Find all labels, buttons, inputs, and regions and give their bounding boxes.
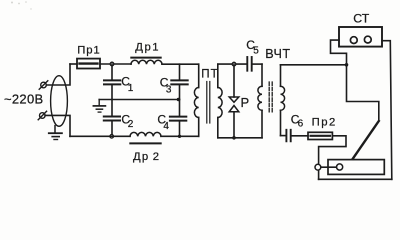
svg-text:ПТ: ПТ <box>201 68 218 80</box>
svg-text:3: 3 <box>166 85 172 96</box>
wire jog to ST left terminal <box>331 40 347 65</box>
electrode (welding electrode) <box>353 121 379 159</box>
svg-text:ВЧТ: ВЧТ <box>265 47 290 61</box>
wire VChT secondary top to ST junction <box>281 64 347 66</box>
fuse Pr1 <box>77 59 100 69</box>
node junction C2 / bottom rail <box>110 135 114 139</box>
transformer VChT core <box>269 82 272 113</box>
svg-text:Р: Р <box>241 95 250 110</box>
transformer PT core <box>207 82 210 124</box>
svg-text:2: 2 <box>128 119 134 130</box>
capacitor C4 <box>170 100 186 137</box>
inductor Dr1 <box>131 58 162 65</box>
wire tank bottom <box>218 137 262 139</box>
wire bottom return rail <box>319 178 392 180</box>
scan specks (decorative noise) <box>11 1 32 10</box>
wire VChT secondary bottom to C6 <box>281 135 286 137</box>
svg-text:4: 4 <box>163 121 169 132</box>
capacitor C1 <box>104 64 120 100</box>
wire bottom rail right <box>161 135 199 137</box>
wire bottom rail left <box>70 135 130 137</box>
svg-text:5: 5 <box>253 46 259 57</box>
workpiece box <box>328 160 384 175</box>
fuse Pr2 <box>308 132 332 139</box>
node terminal bottom pin (neutral) <box>38 111 46 119</box>
node junction C4 / bottom rail <box>178 135 181 138</box>
ground (at plug) <box>49 126 62 140</box>
wire middle rail <box>99 99 179 101</box>
wire ST right terminal to right rail <box>382 41 392 180</box>
node junction electrode branch <box>345 63 349 67</box>
transformer PT secondary <box>218 64 222 138</box>
node junction fuse/C1/Dr1 <box>110 62 114 66</box>
terminal left of ST <box>350 37 357 44</box>
wire Pr2 to workpiece terminal <box>319 136 346 180</box>
label C5 <box>246 38 259 57</box>
transformer PT primary <box>194 64 198 136</box>
wire electrode feeder <box>347 65 379 121</box>
spark gap P (arrester) <box>229 64 239 138</box>
terminal right of ST <box>364 36 371 43</box>
svg-text:Др 2: Др 2 <box>133 151 160 163</box>
label C3 <box>160 76 172 96</box>
svg-text:Пр2: Пр2 <box>312 116 337 128</box>
inductor Dr2 <box>130 132 161 143</box>
svg-text:1: 1 <box>128 83 134 94</box>
wire plug bottom terminal to bottom rail <box>45 115 70 136</box>
wire fuse to node <box>100 63 131 65</box>
transformer VChT secondary <box>281 65 285 136</box>
wire plug top terminal to fuse <box>46 64 70 85</box>
capacitor C2 <box>104 100 120 137</box>
connector XP1 plug body ellipse <box>51 76 68 127</box>
svg-text:~220В: ~220В <box>4 91 43 106</box>
transformer VChT primary <box>258 64 262 138</box>
label C6 <box>291 113 304 130</box>
label C4 <box>157 113 169 133</box>
label C1 <box>121 75 134 94</box>
capacitor C5 <box>247 57 262 71</box>
wire tank top <box>218 63 247 65</box>
capacitor C6 <box>286 130 308 142</box>
node junction P / bottom wire <box>232 136 236 140</box>
svg-text:6: 6 <box>298 119 304 130</box>
ground (middle rail) <box>93 100 105 113</box>
wire clamp to workpiece <box>321 166 337 168</box>
node junction P / top wire <box>232 62 236 66</box>
capacitor C3 <box>171 64 187 99</box>
node junction middle rail / C3C4 <box>177 98 180 101</box>
label C2 <box>121 113 133 130</box>
welding transformer ST box <box>339 27 382 47</box>
svg-text:СТ: СТ <box>353 12 369 26</box>
svg-text:Др1: Др1 <box>135 41 160 53</box>
wire Dr1 to PT primary (top rail) <box>162 63 199 65</box>
node contact point on workpiece <box>337 164 343 170</box>
terminal (workpiece clamp) <box>315 164 321 170</box>
node terminal top pin (phase) <box>39 81 48 89</box>
wire top rail into fuse <box>70 63 77 65</box>
svg-text:Пр1: Пр1 <box>77 44 100 56</box>
